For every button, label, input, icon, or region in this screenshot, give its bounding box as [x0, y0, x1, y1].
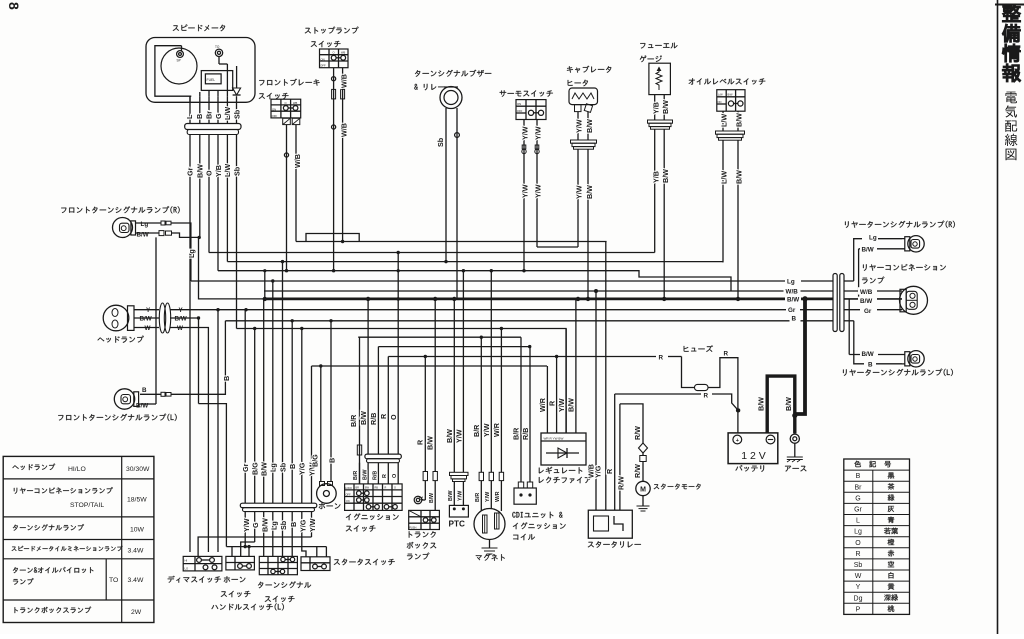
earth thick wire from trunk: [795, 299, 805, 414]
label front turn signal R: [61, 206, 179, 213]
label fuse: [684, 345, 713, 352]
svg-text:B/R: B/R: [472, 424, 481, 437]
wire joint F-H: [264, 271, 266, 299]
svg-text:B/W: B/W: [735, 170, 744, 184]
front turn signal lamp R L1: [113, 218, 133, 238]
svg-text:Y/G: Y/G: [298, 462, 307, 475]
svg-text:Lg: Lg: [869, 234, 877, 241]
svg-text:O: O: [392, 474, 398, 478]
battery BT1 12V: [728, 433, 778, 464]
starter relay K1: [595, 291, 597, 510]
svg-text:Y/W: Y/W: [534, 126, 543, 140]
svg-text:B/W: B/W: [445, 429, 454, 443]
svg-text:W/B: W/B: [293, 154, 302, 168]
ignition risers: [359, 337, 361, 484]
color table header: [854, 461, 891, 468]
ignition connector bar: [365, 454, 401, 459]
svg-text:B/W: B/W: [585, 185, 594, 199]
magneto M1: [480, 337, 482, 472]
svg-text:Y/W: Y/W: [457, 490, 463, 501]
svg-text:Br: Br: [205, 111, 214, 119]
diode in speedometer: [236, 66, 238, 88]
starter switch SW8: [301, 557, 330, 571]
svg-text:R: R: [382, 474, 388, 478]
motor body: [636, 481, 650, 495]
svg-text:Sb: Sb: [854, 562, 863, 569]
stop lamp switch SW2: [320, 49, 349, 68]
svg-text:R/W: R/W: [633, 426, 642, 440]
bar to block: [359, 463, 361, 484]
svg-text:B/G: B/G: [251, 462, 260, 475]
trunk labels with gaps: [785, 277, 801, 285]
wire B/R bus M ignition to CDI: [358, 336, 521, 338]
wire R bus O ignition to fuse: [388, 356, 656, 358]
svg-text:BR: BR: [356, 486, 360, 489]
horn switch SW6: [226, 556, 255, 570]
wire thermo to carb heater: [537, 246, 578, 248]
sidebar subtitle denki haisenzu: [1005, 92, 1018, 161]
wire bus L: [237, 329, 567, 434]
svg-text:B/W: B/W: [860, 298, 872, 305]
svg-text:ON: ON: [346, 500, 350, 503]
label regulator: [539, 467, 582, 474]
svg-text:ON: ON: [272, 108, 276, 112]
label rear turn signal L: [843, 369, 953, 376]
headlamp connector: [159, 303, 165, 333]
trunk block: [409, 510, 440, 529]
trunk box lamp L4: [424, 357, 426, 472]
svg-text:Y: Y: [856, 584, 861, 591]
label front turn signal L: [58, 414, 176, 421]
svg-text:B/W: B/W: [735, 113, 744, 127]
svg-text:TO: TO: [109, 577, 118, 584]
color code table: [844, 459, 910, 614]
table row 2: [14, 487, 113, 494]
headlamp Y riser: [217, 310, 219, 552]
handlebar harness risers above bar: [244, 310, 246, 504]
svg-text:M: M: [640, 486, 646, 493]
svg-text:STOP/TAIL: STOP/TAIL: [70, 502, 104, 509]
svg-text:W/R: W/R: [495, 491, 501, 502]
label thermo switch: [500, 90, 553, 96]
svg-text:PTC: PTC: [449, 520, 465, 529]
headlamp leads: [134, 309, 159, 311]
svg-text:G: G: [855, 495, 860, 502]
wire B rear drop: [854, 321, 902, 364]
svg-text:W/B: W/B: [340, 74, 349, 88]
lamp R leads: [136, 222, 161, 224]
wire Lg trunk G: [191, 280, 833, 282]
svg-text:BW: BW: [365, 486, 370, 489]
svg-text:Y/W: Y/W: [557, 398, 566, 412]
svg-text:2W: 2W: [131, 609, 142, 616]
svg-text:B/W: B/W: [425, 436, 434, 450]
svg-text:L/W: L/W: [720, 171, 729, 184]
svg-text:Y/W: Y/W: [454, 429, 463, 443]
svg-text:B/W: B/W: [567, 398, 576, 412]
wire Lg down: [171, 223, 191, 281]
table row 6: [15, 607, 92, 614]
svg-text:G: G: [214, 113, 223, 119]
svg-text:B/R: B/R: [512, 427, 521, 440]
rear turn signal lamp L L7: [908, 351, 924, 367]
svg-text:B/W: B/W: [787, 296, 799, 303]
svg-text:Lg: Lg: [787, 279, 795, 286]
svg-text:ON: ON: [321, 57, 325, 61]
svg-text:R: R: [704, 393, 709, 400]
svg-text:3.4W: 3.4W: [128, 577, 144, 584]
svg-text:Lg: Lg: [141, 221, 149, 228]
svg-text:W: W: [177, 325, 183, 332]
wire R/B bus N ignition to CDI: [378, 346, 530, 348]
table row 4: [12, 546, 123, 552]
columns below bar: [244, 512, 246, 547]
wire W/B bus B: [296, 241, 607, 243]
label headlamp: [98, 336, 144, 343]
svg-text:B/W: B/W: [362, 469, 368, 480]
svg-text:L/W: L/W: [720, 114, 729, 127]
svg-text:18/5W: 18/5W: [127, 497, 147, 504]
svg-text:B/W: B/W: [661, 100, 670, 114]
svg-text:B/W: B/W: [862, 351, 874, 358]
svg-text:ON: ON: [718, 100, 722, 104]
svg-text:Y/B: Y/B: [214, 165, 223, 177]
wire W/B stop R: [342, 68, 344, 242]
svg-text:B/W: B/W: [175, 316, 187, 323]
svg-text:R/W: R/W: [616, 476, 625, 490]
carb heater wires: [577, 112, 579, 140]
speedometer bulb SP: [177, 51, 184, 58]
svg-text:W/B: W/B: [860, 289, 873, 296]
svg-text:HI: HI: [185, 559, 188, 563]
svg-text:R/W: R/W: [633, 464, 642, 478]
svg-text:R/B: R/B: [369, 413, 378, 425]
svg-text:O: O: [285, 101, 287, 105]
label starter motor: [654, 484, 701, 490]
svg-text:R: R: [605, 468, 614, 474]
thermo switch SW3: [516, 100, 546, 120]
speedometer unit U1: [146, 38, 255, 103]
lamp L leads: [140, 393, 161, 395]
svg-text:R: R: [659, 354, 664, 361]
svg-text:O: O: [394, 486, 396, 489]
svg-text:B: B: [856, 473, 861, 480]
svg-text:B: B: [328, 458, 337, 463]
magneto ground: [489, 540, 491, 549]
svg-text:W/B: W/B: [786, 289, 799, 296]
svg-text:Br: Br: [855, 484, 863, 491]
wire W/B bus F: [218, 271, 731, 291]
svg-text:R: R: [379, 413, 388, 419]
svg-text:Gr: Gr: [241, 463, 250, 472]
label fuel gauge: [640, 43, 677, 49]
svg-text:R: R: [724, 350, 729, 357]
wire W/B trunk H: [264, 290, 833, 292]
svg-text:RB: RB: [375, 486, 379, 489]
svg-text:B/W: B/W: [260, 518, 269, 532]
svg-text:B: B: [289, 522, 298, 527]
svg-text:O: O: [333, 51, 335, 55]
label handlebar switch L: [211, 603, 283, 610]
label dimmer switch: [168, 576, 221, 583]
svg-text:Sb: Sb: [278, 462, 287, 472]
front turn signal lamp L L3: [114, 389, 134, 409]
lamp wattage table: [3, 456, 154, 622]
svg-text:P: P: [856, 606, 861, 613]
svg-text:B/W: B/W: [260, 462, 269, 476]
table row 1: [12, 464, 55, 471]
label turn signal switch: [258, 581, 311, 588]
label CDI: [512, 512, 562, 518]
svg-text:Sb: Sb: [436, 137, 445, 147]
wire W/B stop L: [333, 68, 335, 271]
svg-text:R/B: R/B: [373, 471, 379, 480]
label magneto: [476, 554, 505, 561]
PTC block: [449, 505, 468, 517]
top right rule: [995, 4, 1024, 6]
svg-text:L/W: L/W: [223, 164, 232, 177]
svg-text:W/B: W/B: [340, 123, 349, 137]
svg-text:LOCK: LOCK: [345, 487, 352, 490]
svg-text:WB: WB: [293, 101, 297, 105]
svg-text:Y/W: Y/W: [485, 491, 491, 502]
svg-text:PUSH: PUSH: [409, 525, 416, 529]
svg-text:Sb: Sb: [279, 520, 288, 530]
rear harness connector: [833, 274, 837, 332]
turn signal switch SW7: [259, 556, 297, 574]
svg-text:B/W: B/W: [585, 119, 594, 133]
svg-text:Gr: Gr: [788, 307, 796, 314]
svg-text:W: W: [855, 573, 862, 580]
speedometer dial: [161, 48, 197, 84]
svg-text:10W: 10W: [130, 527, 145, 534]
label front brake switch: [259, 79, 319, 86]
svg-text:Y/W: Y/W: [521, 184, 530, 198]
wire W/B front brake L: [286, 125, 288, 271]
svg-text:B: B: [792, 315, 797, 322]
regulator rectifier U3: [546, 366, 548, 433]
svg-text:L/W: L/W: [223, 107, 232, 120]
table row 3: [13, 524, 84, 531]
svg-text:OFF: OFF: [517, 109, 523, 113]
turn signal buzzer and relay BZ1: [440, 87, 462, 109]
label starter relay: [588, 541, 641, 548]
svg-text:HI/LO: HI/LO: [68, 466, 86, 473]
fuel meter box: [201, 71, 232, 91]
wire Lg riser rear right: [854, 239, 902, 281]
svg-text:OFF: OFF: [346, 493, 351, 496]
svg-text:B/W: B/W: [429, 493, 435, 503]
svg-text:B: B: [222, 376, 231, 381]
svg-text:Y/W: Y/W: [308, 518, 317, 532]
svg-text:R: R: [547, 400, 556, 406]
svg-text:B: B: [195, 114, 204, 119]
brake switch terminals hatched: [283, 118, 291, 124]
svg-text:WB: WB: [341, 51, 345, 55]
svg-text:Y/W: Y/W: [482, 423, 491, 437]
fusible link: [639, 443, 648, 453]
label turn signal buzzer: [415, 70, 491, 77]
svg-text:L: L: [856, 518, 860, 525]
svg-text:B/W: B/W: [137, 231, 149, 238]
svg-text:O: O: [205, 170, 214, 176]
switch mesh lines: [198, 537, 311, 556]
label rear combination lamp: [863, 264, 946, 271]
svg-text:Gr: Gr: [864, 308, 872, 315]
svg-text:Gr: Gr: [186, 167, 195, 176]
svg-text:Lg: Lg: [187, 249, 196, 258]
horn H1: [317, 484, 337, 504]
label battery: [735, 465, 764, 472]
svg-text:G: G: [251, 522, 260, 528]
svg-text:Sb: Sb: [233, 109, 242, 119]
svg-text:SP: SP: [177, 59, 181, 63]
front brake switch SW1: [271, 99, 301, 118]
starter motor M2: [620, 404, 643, 443]
svg-text:8: 8: [6, 2, 22, 10]
headlamp W wire: [170, 328, 208, 553]
page border right sidebar line: [997, 0, 999, 634]
label oil level switch: [689, 78, 766, 84]
wire B riser: [171, 321, 225, 395]
wire B/W main trunk thick: [264, 297, 833, 300]
svg-text:R: R: [855, 551, 860, 558]
fuel gauge sender G1: [649, 63, 671, 94]
wire bus P: [312, 365, 548, 367]
svg-text:Sb: Sb: [233, 166, 242, 176]
svg-text:B/W: B/W: [195, 164, 204, 178]
table row 5: [13, 567, 94, 573]
label speedometer: [173, 25, 225, 32]
carburetor heater R1: [569, 88, 598, 105]
svg-text:B/W: B/W: [140, 316, 152, 323]
svg-text:ON: ON: [517, 102, 521, 106]
svg-text:B/W: B/W: [359, 411, 368, 425]
svg-text:OFF: OFF: [320, 64, 326, 68]
svg-text:B/G: B/G: [311, 454, 320, 467]
buzzer wires: [445, 108, 447, 262]
svg-text:W/R: W/R: [538, 397, 547, 412]
earth terminal: [790, 434, 799, 443]
label earth: [785, 466, 806, 472]
wire W/B jog bus A: [306, 234, 359, 242]
svg-text:O: O: [855, 540, 861, 547]
sidebar title seibi joho: [1002, 4, 1020, 82]
label trunk box lamp: [409, 531, 436, 537]
svg-text:Y/W: Y/W: [534, 184, 543, 198]
svg-text:Dg: Dg: [854, 595, 863, 602]
wire Y/Gr trunk J: [170, 309, 833, 311]
horn wires: [320, 366, 322, 482]
svg-text:1 2 V: 1 2 V: [741, 450, 766, 462]
svg-text:Y/W: Y/W: [521, 126, 530, 140]
PTC heater R2: [453, 299, 455, 472]
svg-text:O: O: [389, 414, 398, 420]
svg-text:Gr: Gr: [854, 507, 862, 514]
speedometer bulb TO: [215, 49, 222, 56]
svg-text:Y/G: Y/G: [593, 465, 602, 478]
svg-text:Y/W: Y/W: [242, 518, 251, 532]
oil level wires: [722, 111, 724, 131]
dimmer switch SW5: [183, 556, 222, 571]
svg-text:L: L: [185, 114, 194, 119]
svg-text:Y/B: Y/B: [651, 102, 660, 114]
speedometer harness wires: [189, 135, 191, 553]
svg-text:B/R: B/R: [349, 414, 358, 427]
svg-text:B/R: B/R: [475, 493, 481, 502]
oil level switch SW4: [717, 90, 745, 112]
svg-text:B/R: B/R: [353, 471, 359, 480]
svg-text:+: +: [736, 438, 739, 444]
svg-text:3.4W: 3.4W: [128, 548, 144, 555]
label carburetor heater: [567, 66, 611, 73]
svg-text:R/B: R/B: [521, 428, 530, 440]
handlebar connector bar: [240, 503, 316, 507]
svg-text:WR R YW BW: WR R YW BW: [544, 437, 564, 441]
svg-text:R: R: [385, 486, 387, 489]
wire B trunk K: [225, 320, 833, 322]
label starter switch: [334, 559, 395, 565]
wire L/W bus D speedometer to oil level switch: [227, 261, 723, 263]
svg-text:B/W: B/W: [448, 490, 454, 501]
svg-text:Y/B: Y/B: [651, 171, 660, 183]
svg-text:B/W: B/W: [136, 403, 148, 410]
svg-text:R: R: [416, 439, 425, 445]
svg-text:Y/W: Y/W: [575, 185, 584, 199]
label stop lamp switch: [305, 27, 359, 34]
svg-text:B/W: B/W: [862, 247, 874, 254]
ignition block: [345, 484, 403, 511]
fuse F1: [682, 357, 696, 388]
svg-text:Lg: Lg: [269, 463, 278, 472]
svg-text:L/W: L/W: [718, 92, 723, 96]
speedometer connector bar: [185, 124, 241, 130]
svg-text:B: B: [288, 464, 297, 469]
fuel gauge wires: [654, 95, 656, 120]
svg-text:B: B: [868, 361, 873, 368]
wire B/W jog: [171, 233, 199, 237]
CDI unit and ignition coil U2: [520, 337, 522, 482]
rear turn signal lamp R L5: [908, 236, 924, 252]
label horn: [319, 503, 341, 509]
svg-text:B/W: B/W: [784, 397, 793, 411]
svg-text:Y/W: Y/W: [575, 119, 584, 133]
svg-text:30/30W: 30/30W: [126, 466, 150, 473]
wire R bus Q battery to starter relay: [615, 393, 701, 395]
wire B/W to trunk: [199, 237, 265, 299]
label ignition switch: [346, 513, 399, 520]
svg-text:Lg: Lg: [854, 529, 862, 536]
label rear turn signal R: [845, 221, 955, 228]
svg-text:OFF: OFF: [272, 114, 278, 118]
svg-text:B/W: B/W: [661, 169, 670, 183]
svg-text:B/W: B/W: [756, 397, 765, 411]
svg-text:Y/G: Y/G: [298, 519, 307, 532]
svg-text:TO: TO: [215, 45, 220, 49]
wire B/W to left lamp: [155, 237, 157, 404]
svg-text:B/W: B/W: [728, 92, 733, 96]
headlamp B/W wire: [170, 317, 199, 319]
motor ground: [642, 496, 644, 506]
magneto body: [474, 509, 505, 540]
battery negative thick wire: [767, 376, 795, 433]
label horn switch: [224, 576, 246, 582]
trunk bulb: [414, 496, 422, 504]
headlamp L2: [103, 305, 129, 331]
svg-text:W/R: W/R: [492, 422, 501, 437]
svg-text:B: B: [142, 387, 147, 394]
thermo wires Y/W: [523, 120, 525, 271]
